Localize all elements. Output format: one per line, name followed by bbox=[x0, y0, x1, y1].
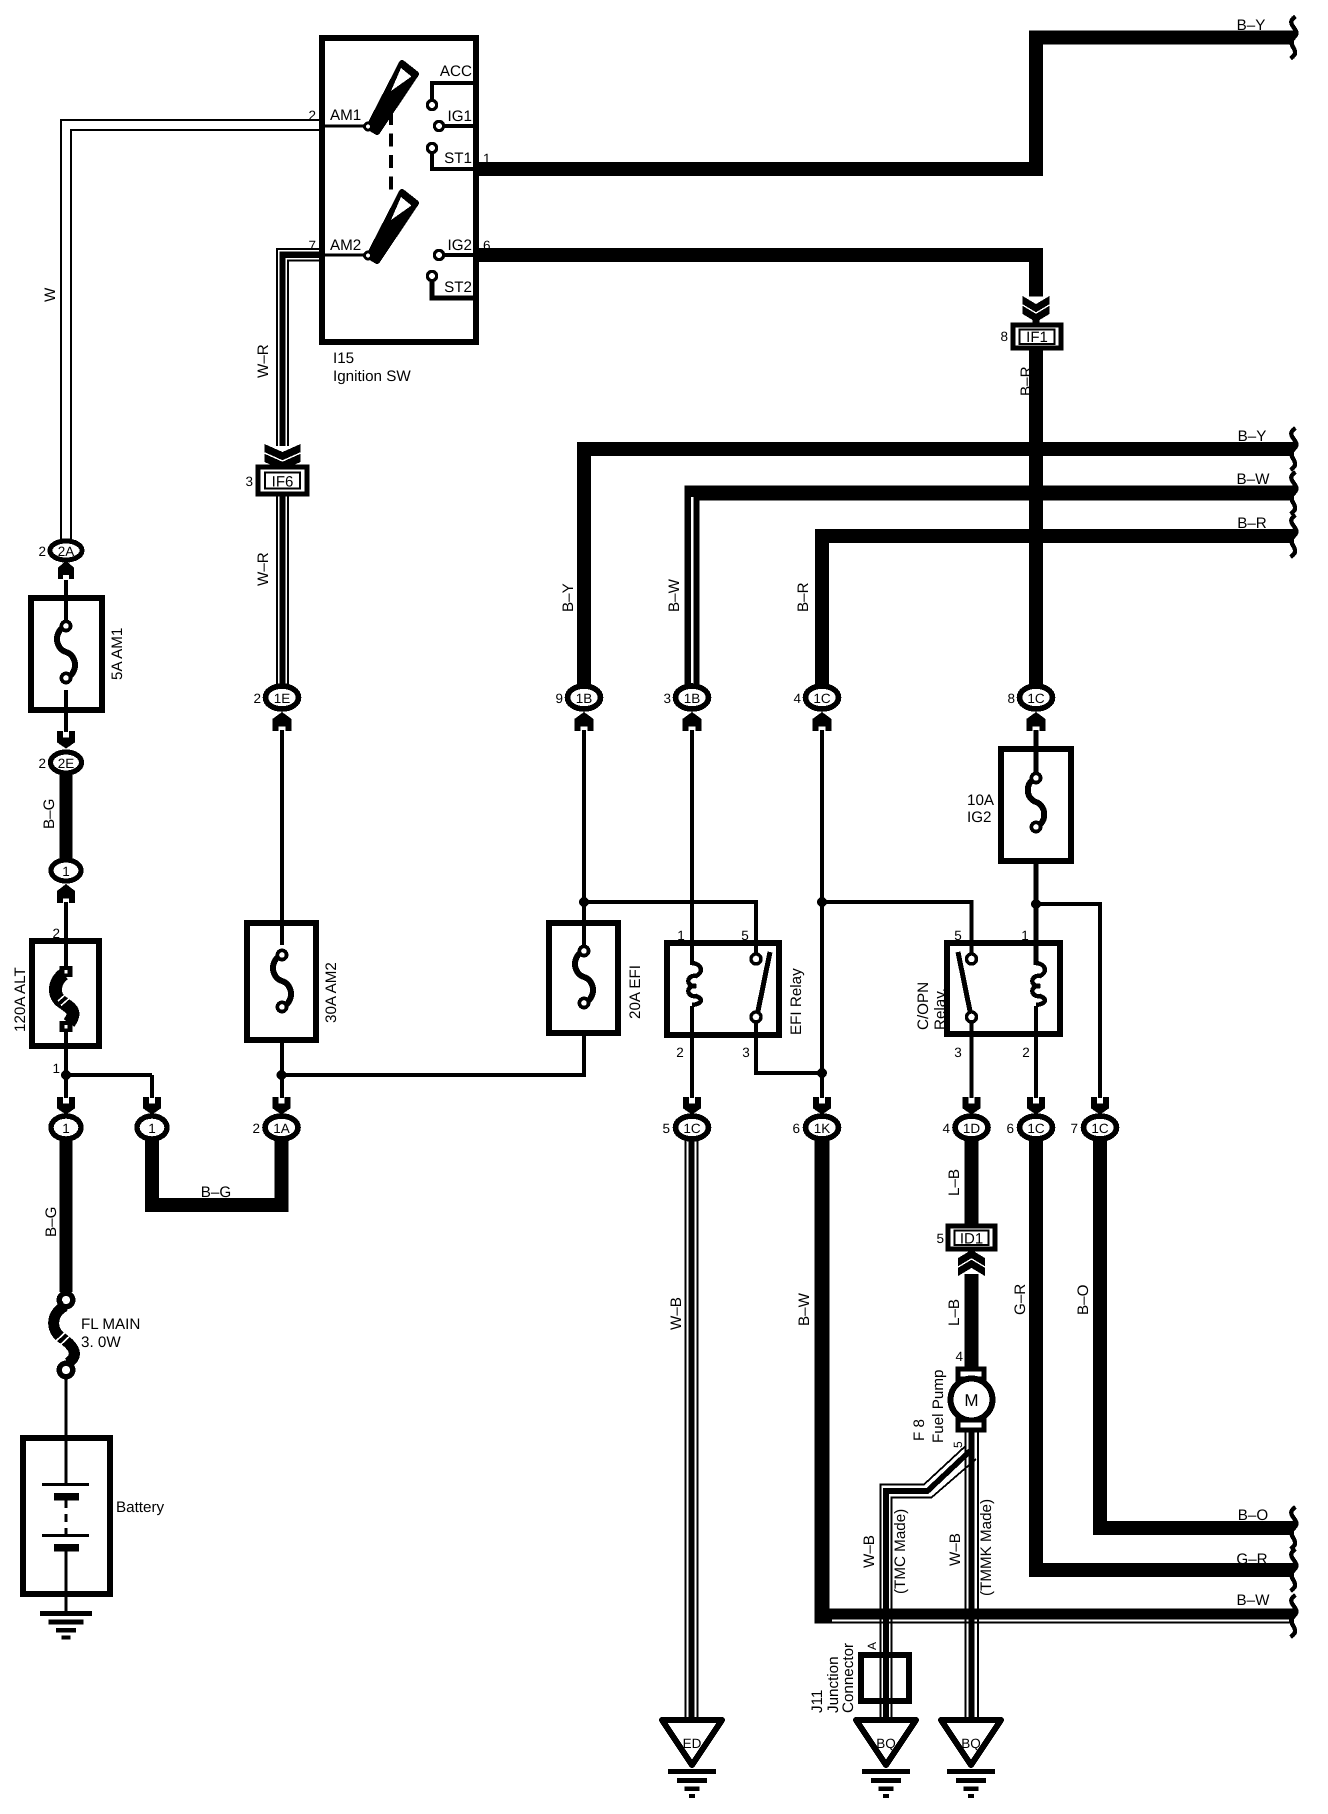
junction connector J11 bbox=[809, 1643, 909, 1713]
wire to 120A ALT bbox=[64, 902, 68, 968]
wire B-R heavy IF1 to 1C(8) bbox=[1029, 348, 1043, 684]
arrow into 1 (left) bbox=[57, 1097, 75, 1115]
arrow into 2E bbox=[57, 731, 75, 749]
svg-text:5: 5 bbox=[954, 928, 962, 943]
fuse 20A EFI bbox=[549, 923, 644, 1033]
svg-text:IG2: IG2 bbox=[967, 809, 991, 826]
contact ACC bbox=[427, 63, 476, 110]
wiper AM1 bbox=[363, 63, 416, 132]
continuation mark B-Y top bbox=[1291, 17, 1297, 59]
connector 1C(8) bbox=[1007, 686, 1052, 709]
wire B-O heavy bbox=[1100, 1141, 1294, 1528]
svg-text:F 8: F 8 bbox=[911, 1419, 928, 1441]
arrow below 2A bbox=[58, 561, 74, 579]
wire B-R harness to 1C(4) bbox=[822, 536, 1294, 684]
wire W double line bbox=[61, 120, 322, 540]
svg-text:1A: 1A bbox=[273, 1121, 290, 1136]
svg-text:L–B: L–B bbox=[946, 1169, 963, 1196]
battery bbox=[23, 1438, 165, 1612]
connector 1C(4) bbox=[793, 686, 838, 709]
wire L-B 1D(4) to ID1 bbox=[965, 1141, 979, 1226]
svg-text:1C: 1C bbox=[813, 691, 831, 706]
svg-text:ID1: ID1 bbox=[960, 1231, 983, 1248]
svg-text:B–G: B–G bbox=[201, 1184, 231, 1201]
svg-text:30A AM2: 30A AM2 bbox=[323, 962, 340, 1023]
connector 1C(6) bbox=[1006, 1116, 1052, 1139]
EFI relay switch bbox=[751, 952, 770, 1022]
pin AM2 bbox=[308, 237, 364, 255]
junction dot bbox=[277, 1070, 287, 1080]
wire 1C(8) to fuse 10A IG2 bbox=[1034, 730, 1039, 775]
svg-text:B–Y: B–Y bbox=[560, 583, 577, 612]
svg-text:B–G: B–G bbox=[41, 799, 58, 829]
svg-text:2: 2 bbox=[253, 691, 261, 706]
svg-text:1K: 1K bbox=[814, 1121, 831, 1136]
svg-text:2A: 2A bbox=[58, 544, 75, 559]
contact ST2 bbox=[427, 271, 476, 298]
svg-text:FL MAIN: FL MAIN bbox=[81, 1316, 140, 1333]
svg-text:W–B: W–B bbox=[668, 1297, 685, 1330]
svg-text:W–B: W–B bbox=[947, 1533, 964, 1566]
svg-text:B–G: B–G bbox=[43, 1207, 60, 1237]
connector arrow into IF1 bbox=[1023, 296, 1050, 322]
wire junction to 20A EFI bbox=[282, 1033, 585, 1075]
svg-text:5A AM1: 5A AM1 bbox=[109, 628, 126, 680]
svg-text:2: 2 bbox=[1022, 1045, 1030, 1060]
wiper AM2 bbox=[363, 192, 416, 261]
connector 1B(3) bbox=[663, 686, 708, 709]
svg-text:B–R: B–R bbox=[1237, 515, 1267, 532]
svg-text:1C: 1C bbox=[1027, 691, 1045, 706]
ground ED bbox=[662, 1720, 722, 1798]
ground BQ (left) bbox=[856, 1720, 916, 1798]
svg-text:7: 7 bbox=[308, 238, 316, 253]
wire B-R 1C(4) down to 1K bbox=[820, 730, 824, 1098]
wire EFI relay pin2 to 1C(5) bbox=[690, 1006, 694, 1098]
connector 1A bbox=[252, 1116, 298, 1139]
connector IF1 bbox=[1000, 325, 1061, 348]
svg-text:4: 4 bbox=[942, 1121, 950, 1136]
svg-text:3: 3 bbox=[742, 1045, 750, 1060]
junction dot bbox=[61, 1070, 71, 1080]
svg-text:2: 2 bbox=[676, 1045, 684, 1060]
wire 1B(9) down to fuse bbox=[582, 730, 586, 945]
svg-text:A: A bbox=[865, 1642, 879, 1650]
wire to 5A AM1 bbox=[64, 580, 68, 620]
arrow into 1C(5) bbox=[683, 1097, 701, 1115]
svg-text:B–W: B–W bbox=[666, 578, 683, 612]
wire W-B (TMMK) double to BQ bbox=[966, 1430, 979, 1720]
wire B-W heavy bbox=[822, 1141, 1294, 1616]
svg-text:Relay.: Relay. bbox=[932, 988, 949, 1030]
svg-text:1D: 1D bbox=[963, 1121, 981, 1136]
svg-text:2: 2 bbox=[252, 1121, 260, 1136]
svg-text:5: 5 bbox=[936, 1231, 944, 1246]
connector 1 (left) bbox=[51, 1116, 81, 1139]
svg-text:G–R: G–R bbox=[1012, 1284, 1029, 1315]
arrow below 1B(3) bbox=[682, 712, 701, 731]
contact ST1 bbox=[427, 143, 476, 169]
arrow below 1 bbox=[57, 884, 75, 903]
C/OPN relay switch bbox=[958, 952, 977, 1022]
svg-text:1E: 1E bbox=[274, 691, 291, 706]
svg-text:J11: J11 bbox=[809, 1690, 826, 1713]
svg-text:6: 6 bbox=[1006, 1121, 1014, 1136]
svg-text:8: 8 bbox=[1000, 329, 1008, 344]
svg-text:1: 1 bbox=[62, 864, 70, 879]
wire L-B ID1 to pump bbox=[965, 1274, 979, 1369]
svg-text:B–W: B–W bbox=[796, 1292, 813, 1326]
C/OPN relay box bbox=[915, 928, 1060, 1060]
ground below battery bbox=[40, 1611, 92, 1640]
svg-text:Ignition SW: Ignition SW bbox=[333, 368, 411, 385]
svg-text:B–Y: B–Y bbox=[1237, 17, 1266, 34]
svg-text:IF1: IF1 bbox=[1026, 329, 1048, 346]
junction dot bbox=[579, 897, 589, 907]
connector 1 bbox=[51, 860, 81, 881]
svg-text:ED: ED bbox=[683, 1736, 702, 1751]
svg-text:B–R: B–R bbox=[795, 582, 812, 612]
svg-text:W–B: W–B bbox=[861, 1535, 878, 1568]
arrow into 1K(6) bbox=[813, 1097, 831, 1115]
wire to battery bbox=[64, 1377, 67, 1484]
EFI relay box bbox=[667, 928, 805, 1060]
arrow below 1C(4) bbox=[812, 712, 831, 731]
connector IF6 bbox=[245, 467, 307, 494]
arrow below 1E bbox=[272, 712, 291, 731]
wire B-Y harness to 1B(9) bbox=[584, 449, 1294, 684]
svg-text:4: 4 bbox=[955, 1349, 963, 1364]
svg-text:Fuel Pump: Fuel Pump bbox=[930, 1370, 947, 1443]
svg-text:7: 7 bbox=[1070, 1121, 1078, 1136]
svg-text:B–R: B–R bbox=[1018, 366, 1035, 396]
svg-text:3: 3 bbox=[954, 1045, 962, 1060]
wire 1E to 30A AM2 bbox=[280, 730, 284, 945]
arrow into 1C(6) bbox=[1027, 1097, 1045, 1115]
wire 1B(3) down to EFI relay pin1 bbox=[690, 730, 694, 965]
wire B-G U-shape to 1A bbox=[152, 1140, 282, 1205]
svg-text:C/OPN: C/OPN bbox=[915, 982, 932, 1030]
svg-text:G–R: G–R bbox=[1236, 1551, 1267, 1568]
svg-text:IF6: IF6 bbox=[272, 474, 294, 491]
svg-text:IG1: IG1 bbox=[448, 108, 472, 125]
svg-text:B–O: B–O bbox=[1238, 1507, 1269, 1524]
fuse 120A ALT bbox=[12, 941, 99, 1046]
wire B-G heavy down to FL MAIN bbox=[60, 1140, 73, 1292]
svg-text:B–Y: B–Y bbox=[1238, 428, 1267, 445]
wire W-B (TMC) branch to J11 bbox=[881, 1446, 966, 1720]
svg-text:ACC: ACC bbox=[440, 63, 472, 80]
fuel pump F8 bbox=[911, 1369, 993, 1443]
wire junction to EFI relay pin 5 bbox=[584, 902, 756, 954]
svg-text:B–W: B–W bbox=[1237, 471, 1271, 488]
connector 2A bbox=[38, 541, 82, 560]
svg-text:9: 9 bbox=[555, 691, 563, 706]
svg-text:5: 5 bbox=[741, 928, 749, 943]
svg-text:6: 6 bbox=[792, 1121, 800, 1136]
wire B-R heavy from IG2 pin6 bbox=[476, 255, 1036, 297]
svg-text:ST1: ST1 bbox=[444, 150, 472, 167]
svg-text:5: 5 bbox=[951, 1441, 965, 1448]
svg-text:3: 3 bbox=[245, 474, 253, 489]
wire G-R heavy bbox=[1036, 1141, 1294, 1570]
contact IG1 bbox=[434, 108, 476, 131]
svg-text:120A ALT: 120A ALT bbox=[12, 967, 29, 1032]
svg-text:W–R: W–R bbox=[255, 552, 272, 586]
svg-text:AM1: AM1 bbox=[330, 107, 361, 124]
svg-text:IG2: IG2 bbox=[448, 237, 472, 254]
wire C/OPN pin3 to 1D(4) bbox=[969, 1021, 973, 1098]
pin AM1 bbox=[308, 107, 364, 126]
ground BQ (right) bbox=[941, 1720, 1001, 1798]
ignition switch I15 box bbox=[322, 38, 476, 385]
svg-text:2: 2 bbox=[38, 756, 46, 771]
wire C/OPN pin2 to 1C(6) bbox=[1034, 1006, 1038, 1098]
wire below 120A ALT with junction bbox=[64, 1030, 68, 1098]
connector 1E bbox=[253, 686, 298, 709]
wire W-R double line upper bbox=[277, 249, 322, 446]
svg-text:M: M bbox=[964, 1391, 978, 1410]
arrow into 1C(7) bbox=[1091, 1097, 1109, 1115]
fusible link FL MAIN bbox=[54, 1293, 141, 1377]
arrow below ID1 bbox=[958, 1250, 985, 1276]
junction dot bbox=[817, 897, 827, 907]
fuse 30A AM2 bbox=[247, 923, 340, 1040]
svg-text:1: 1 bbox=[1021, 928, 1029, 943]
svg-text:1: 1 bbox=[677, 928, 685, 943]
svg-text:4: 4 bbox=[793, 691, 801, 706]
wire below 30A AM2 bbox=[280, 1040, 284, 1098]
wire down to second 1 bbox=[150, 1075, 154, 1098]
arrow into 1A bbox=[273, 1097, 291, 1115]
svg-text:3: 3 bbox=[663, 691, 671, 706]
svg-text:L–B: L–B bbox=[946, 1299, 963, 1326]
EFI relay coil bbox=[688, 963, 701, 1005]
svg-text:1: 1 bbox=[52, 1061, 60, 1076]
wire B-Y heavy from ST1 pin1 to top right bbox=[476, 38, 1294, 170]
svg-text:BQ: BQ bbox=[961, 1736, 981, 1751]
svg-text:EFI Relay: EFI Relay bbox=[788, 968, 805, 1035]
connector 2E bbox=[38, 752, 81, 773]
arrow below 1C(8) bbox=[1026, 712, 1045, 731]
wire B-G heavy 2E to 1 bbox=[60, 775, 73, 858]
wire W-B double line bbox=[686, 1141, 698, 1720]
contact IG2 bbox=[434, 237, 476, 260]
svg-text:BQ: BQ bbox=[876, 1736, 896, 1751]
connector 1C(5) bbox=[662, 1116, 708, 1139]
svg-text:(TMMK Made): (TMMK Made) bbox=[978, 1499, 995, 1596]
arrow into 1 (second) bbox=[143, 1097, 161, 1115]
junction dot bbox=[1031, 899, 1041, 909]
wire below fuse to C/OPN pin1 bbox=[1034, 861, 1039, 965]
svg-text:Connector: Connector bbox=[840, 1643, 857, 1713]
svg-text:2E: 2E bbox=[58, 756, 75, 771]
svg-text:1: 1 bbox=[62, 1121, 70, 1136]
svg-text:AM2: AM2 bbox=[330, 237, 361, 254]
svg-text:5: 5 bbox=[662, 1121, 670, 1136]
svg-text:1C: 1C bbox=[1091, 1121, 1109, 1136]
wire branch to 1C(7) bbox=[1036, 904, 1100, 1098]
wire B-W harness to 1B(3) bbox=[692, 493, 1294, 684]
svg-text:8: 8 bbox=[1007, 691, 1015, 706]
connector ID1 bbox=[936, 1226, 995, 1249]
arrow below 1B(9) bbox=[574, 712, 593, 731]
wiper link dashed line bbox=[389, 112, 393, 198]
svg-text:B–W: B–W bbox=[1237, 1592, 1271, 1609]
connector 1B(9) bbox=[555, 686, 600, 709]
svg-text:Battery: Battery bbox=[116, 1499, 165, 1516]
svg-text:1C: 1C bbox=[1027, 1121, 1045, 1136]
svg-text:1B: 1B bbox=[576, 691, 593, 706]
wire EFI relay pin3 to B-R junction bbox=[756, 1021, 822, 1073]
C/OPN relay coil bbox=[1032, 963, 1045, 1005]
svg-text:1B: 1B bbox=[684, 691, 701, 706]
connector 1C(7) bbox=[1070, 1116, 1116, 1139]
svg-text:W–R: W–R bbox=[255, 344, 272, 378]
connector 1K(6) bbox=[792, 1116, 838, 1139]
connector arrow into IF6 bbox=[265, 444, 301, 470]
junction dot bbox=[817, 1068, 827, 1078]
svg-text:I15: I15 bbox=[333, 350, 354, 367]
svg-text:B–O: B–O bbox=[1075, 1284, 1092, 1315]
svg-text:1C: 1C bbox=[683, 1121, 701, 1136]
arrow into 1D(4) bbox=[963, 1097, 981, 1115]
wire branch right bbox=[66, 1073, 152, 1077]
connector 1 (second) bbox=[137, 1116, 167, 1139]
svg-text:(TMC Made): (TMC Made) bbox=[892, 1509, 909, 1594]
svg-text:3. 0W: 3. 0W bbox=[81, 1334, 121, 1351]
svg-text:W: W bbox=[42, 287, 59, 302]
connector 1D(4) bbox=[942, 1116, 988, 1139]
svg-text:1: 1 bbox=[148, 1121, 156, 1136]
svg-text:10A: 10A bbox=[967, 792, 995, 809]
wire W-R double line lower bbox=[277, 494, 288, 684]
fuse 5A AM1 bbox=[31, 598, 126, 710]
svg-text:20A EFI: 20A EFI bbox=[627, 965, 644, 1019]
svg-text:2: 2 bbox=[38, 544, 46, 559]
wire junction to C/OPN pin 5 bbox=[822, 902, 972, 954]
wire below 5A AM1 bbox=[64, 690, 68, 732]
svg-text:ST2: ST2 bbox=[444, 279, 472, 296]
fuse 10A IG2 bbox=[967, 749, 1071, 861]
